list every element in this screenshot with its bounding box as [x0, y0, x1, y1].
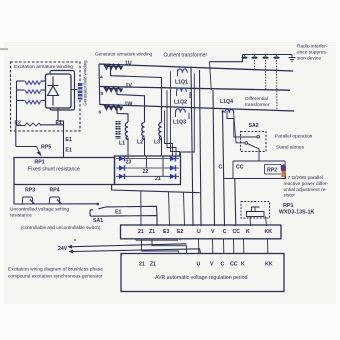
RP2 box — [265, 165, 282, 175]
svg-text:Fixed shunt resistance: Fixed shunt resistance — [28, 167, 80, 173]
svg-text:RP1: RP1 — [35, 160, 45, 166]
potentiometer RP1 dashed box — [241, 202, 270, 219]
svg-text:E1: E1 — [66, 137, 72, 143]
CC box right vertical — [284, 161, 287, 179]
svg-text:E1: E1 — [56, 120, 62, 126]
strip to AVR vertical K — [243, 239, 245, 254]
strip labels — [138, 229, 272, 235]
svg-text:ence suppres-: ence suppres- — [297, 50, 328, 56]
wire RF entry drop to V line — [210, 62, 212, 90]
SA2 blade — [247, 143, 260, 149]
CT secondary wire b — [167, 90, 176, 156]
wire E3 drop — [169, 192, 170, 226]
svg-text:L1Q4: L1Q4 — [220, 99, 233, 105]
resistor E2 zigzag — [25, 123, 41, 126]
CC box top wire — [233, 160, 285, 162]
vertical annotation marks (CJK) — [116, 121, 121, 139]
wire KK drop — [266, 217, 267, 227]
svg-text:22: 22 — [143, 169, 149, 175]
resistor RP1 fixed shunt box — [14, 158, 115, 185]
bridge row wire 21 — [116, 175, 179, 177]
winding 1U lower wire — [111, 65, 162, 122]
CC box left vertical — [232, 161, 234, 179]
SA1 hook wire lower — [90, 210, 157, 226]
wire rectifier to field winding — [71, 89, 78, 91]
resistor RP3 — [23, 197, 33, 204]
24V bottom line — [73, 249, 201, 254]
svg-text:4.7 Ω/20W parallel: 4.7 Ω/20W parallel — [284, 175, 324, 181]
svg-text:Uncontrolled voltage setting: Uncontrolled voltage setting — [10, 207, 70, 213]
strip to AVR vertical U — [198, 239, 200, 254]
CT right secondary bus — [181, 74, 195, 157]
CT L1Q2 secondary stub — [176, 90, 178, 96]
svg-text:Stand alones: Stand alones — [276, 145, 305, 151]
dashed drop c3 — [265, 60, 267, 90]
svg-text:compound excitation synchronou: compound excitation synchronous generato… — [8, 274, 103, 280]
wire RP5 arm — [16, 146, 37, 148]
strip to AVR vertical 21 — [142, 239, 179, 254]
wire 21 drop — [140, 192, 142, 226]
svg-text:sion device: sion device — [297, 56, 321, 62]
svg-text:Z1: Z1 — [149, 229, 155, 235]
CT secondary wire c — [165, 111, 173, 156]
strip to AVR vertical Z1 — [152, 239, 187, 254]
svg-text:K: K — [241, 262, 245, 268]
excitation armature winding dashed box — [11, 62, 81, 131]
24V top line — [72, 244, 187, 247]
generator armature winding 1W coil — [104, 105, 122, 110]
svg-text:23: 23 — [126, 160, 132, 166]
generator armature winding 1V coil — [104, 87, 122, 92]
svg-text:CC: CC — [230, 262, 238, 268]
bridge feed vertical c — [162, 156, 164, 176]
strip to AVR vertical C — [223, 239, 225, 254]
svg-text:U: U — [197, 229, 201, 235]
L1Q4 secondary wire b — [234, 111, 246, 143]
radio interference entry wire — [210, 55, 243, 62]
wire E2 row — [17, 124, 64, 127]
excitation coil 1 — [17, 80, 25, 82]
svg-text:K: K — [246, 229, 250, 235]
wire E3 stub — [166, 239, 168, 240]
svg-text:Generator armature winding: Generator armature winding — [95, 52, 153, 57]
L1Q4 secondary wire a — [227, 111, 258, 137]
svg-text:21: 21 — [139, 262, 145, 268]
wire joining stubs — [136, 239, 178, 241]
svg-text:V: V — [211, 229, 215, 235]
sense line V to strip — [213, 90, 215, 226]
rectifier box U0 shadow — [50, 71, 75, 111]
SA2 contact b — [245, 142, 248, 145]
resistor RP4 — [50, 197, 60, 204]
CT right secondary stub b — [189, 92, 191, 98]
bridge feed vertical b — [146, 156, 148, 168]
radio interference bus — [243, 54, 293, 56]
phase line U — [99, 64, 293, 71]
svg-text:1U: 1U — [125, 61, 132, 67]
svg-text:RP1: RP1 — [283, 203, 294, 209]
SA1 wire upper to strip — [106, 206, 157, 215]
wire E2 stub — [179, 239, 181, 240]
wire E1 node vertical — [63, 125, 65, 158]
CT secondary wire a — [171, 72, 180, 157]
svg-text:E2: E2 — [177, 229, 183, 235]
SA2 contact a — [257, 136, 260, 139]
svg-text:E1: E1 — [115, 210, 121, 216]
svg-text:RP3: RP3 — [25, 188, 35, 194]
CT L1Q3 secondary stub — [175, 110, 177, 117]
rectifier bridge box — [115, 156, 181, 185]
svg-text:5: 5 — [101, 91, 104, 97]
svg-text:Parallel operation: Parallel operation — [275, 134, 313, 140]
capacitor c2 — [254, 55, 256, 57]
svg-text:C: C — [221, 262, 225, 268]
dashed drop c4 — [276, 60, 279, 110]
winding 1W lower wire — [117, 106, 128, 122]
RP4 slider — [57, 200, 62, 205]
svg-text:reactive power differ-: reactive power differ- — [284, 181, 329, 187]
wire E2 drop — [184, 192, 185, 226]
SA1 blade — [99, 207, 107, 209]
svg-text:sistor: sistor — [284, 192, 296, 198]
ground symbol — [289, 55, 296, 62]
svg-text:C: C — [219, 165, 223, 171]
top-left scan smudge — [0, 48, 8, 50]
excitation coil bus — [16, 81, 18, 126]
AVR box — [121, 254, 284, 292]
dashed drop c2 — [254, 60, 256, 70]
svg-text:KK: KK — [265, 262, 273, 268]
junction node on W line — [222, 110, 224, 112]
strip to AVR vertical V — [212, 239, 214, 254]
svg-text:WXD3-13S-1K: WXD3-13S-1K — [279, 210, 315, 216]
phase line V — [100, 87, 290, 91]
svg-text:ential adjustment re-: ential adjustment re- — [284, 187, 328, 193]
strip to AVR vertical CC — [233, 239, 235, 254]
svg-text:SA1: SA1 — [93, 218, 103, 224]
bridge diode 1L — [119, 156, 125, 161]
bridge row wire 23 — [116, 158, 179, 160]
CT L1Q3 coil — [176, 109, 186, 113]
compound reactor L2 coil — [142, 123, 145, 140]
svg-text:24V: 24V — [58, 246, 68, 252]
wire E1 vertical from rectifier — [58, 108, 64, 125]
svg-text:KK: KK — [265, 229, 273, 235]
bridge diode 1R — [170, 156, 176, 161]
bridge diode 3L — [119, 174, 125, 179]
capacitor c3 — [265, 55, 267, 57]
svg-text:transformer: transformer — [245, 102, 270, 108]
generator field winding coil (blue bar) — [78, 83, 83, 100]
reactor L2 lower wire — [144, 138, 146, 157]
svg-text:Excitation armature winding: Excitation armature winding — [14, 64, 73, 70]
coil3 to rectifier — [41, 100, 46, 102]
reactor L3 lower wire — [161, 138, 163, 157]
capacitor c4 — [276, 55, 278, 57]
svg-text:1V: 1V — [126, 83, 133, 89]
bridge diode 2L — [119, 165, 125, 170]
coil2 to rectifier — [41, 89, 46, 91]
strip to AVR vertical KK — [267, 239, 269, 254]
svg-text:Current transformer: Current transformer — [164, 53, 208, 59]
svg-text:Differential: Differential — [245, 96, 268, 102]
svg-text:RP4: RP4 — [50, 188, 60, 194]
svg-text:21: 21 — [155, 176, 161, 182]
differential transformer L1Q4 coil — [225, 109, 234, 112]
svg-text:Excitation wiring diagram of b: Excitation wiring diagram of brushless p… — [8, 267, 103, 273]
wire K drop — [249, 217, 252, 227]
excitation winding coil symbols (blue) — [25, 81, 41, 84]
compound reactor L3 coil — [159, 123, 162, 140]
sense line C from W to strip — [223, 111, 225, 226]
bridge output wire to E terminals — [112, 185, 200, 193]
generator armature winding 1U coil — [104, 64, 122, 69]
SA2 dashed box — [241, 132, 267, 152]
svg-text:6: 6 — [99, 110, 102, 116]
24V arrows — [68, 245, 74, 254]
potentiometer RP2 (orange) — [282, 170, 286, 178]
svg-text:(controllable and uncontrollab: (controllable and uncontrollable switch) — [21, 225, 101, 230]
bridge diode 2R — [170, 165, 176, 170]
bridge row wire 22 — [116, 167, 179, 169]
svg-text:RP2: RP2 — [267, 168, 277, 174]
CT right secondary stub c — [188, 113, 190, 119]
svg-text:V: V — [210, 262, 214, 268]
svg-text:E1: E1 — [66, 148, 72, 154]
excitation coil 3 — [17, 100, 25, 102]
svg-text:1W: 1W — [125, 101, 133, 107]
terminal strip box — [121, 225, 282, 239]
SA1 wire left — [14, 185, 97, 205]
svg-text:CC: CC — [233, 229, 241, 235]
svg-text:L1: L1 — [119, 141, 125, 147]
sense line U to strip — [191, 67, 193, 226]
svg-text:AVR automatic voltage regulati: AVR automatic voltage regulation period — [155, 275, 248, 281]
svg-text:SA2: SA2 — [249, 123, 259, 129]
wire CC drop to strip — [235, 179, 236, 227]
diode V0 inside rectifier — [48, 77, 59, 106]
AVR labels — [139, 262, 273, 268]
svg-text:CC: CC — [236, 165, 244, 171]
svg-text:4: 4 — [100, 75, 103, 81]
SA1 contact — [97, 203, 100, 206]
wire RP5 left vertical — [15, 126, 17, 147]
RP3 slider — [30, 200, 35, 205]
excitation coil 2 — [17, 89, 25, 91]
svg-text:resistance: resistance — [10, 213, 32, 219]
sense line U2 to strip — [200, 70, 202, 226]
potentiometer RP1 body — [247, 207, 265, 217]
svg-text:L1Q2: L1Q2 — [174, 100, 187, 106]
vertical 21b — [135, 239, 137, 240]
svg-text:RP5: RP5 — [41, 145, 51, 151]
svg-text:L3: L3 — [154, 140, 160, 146]
CT L1Q2 coil — [177, 88, 187, 92]
phase line W — [100, 105, 294, 112]
reactor L1 lower wire — [127, 138, 129, 157]
rectifier box U0 — [46, 74, 72, 108]
RP5 wiper arrow — [37, 147, 41, 155]
winding 1V lower wire — [117, 88, 145, 122]
SA2 to CC box — [258, 149, 260, 161]
coil1 to rectifier — [41, 80, 46, 82]
svg-text:E2: E2 — [15, 121, 21, 127]
compound reactor L1 coil — [125, 123, 128, 140]
svg-text:C: C — [223, 229, 227, 235]
svg-text:L1Q3: L1Q3 — [173, 120, 186, 126]
svg-text:Radio interfer-: Radio interfer- — [297, 44, 328, 50]
svg-text:Z1: Z1 — [150, 262, 156, 268]
svg-text:U: U — [197, 262, 201, 268]
bridge feed vertical a — [127, 156, 129, 159]
svg-text:L2: L2 — [137, 140, 143, 146]
bridge diode 3R — [170, 174, 176, 179]
capacitor c1 — [244, 55, 246, 57]
svg-text:21: 21 — [138, 229, 144, 235]
CT L1Q1 secondary stub — [177, 70, 179, 76]
svg-text:E3: E3 — [163, 229, 169, 235]
generator bus vertical — [98, 64, 101, 105]
svg-text:L1Q1: L1Q1 — [175, 80, 188, 86]
svg-text:Generator field winding: Generator field winding — [83, 60, 88, 106]
CT L1Q1 coil — [178, 69, 188, 73]
CC box bottom wire — [224, 178, 286, 180]
